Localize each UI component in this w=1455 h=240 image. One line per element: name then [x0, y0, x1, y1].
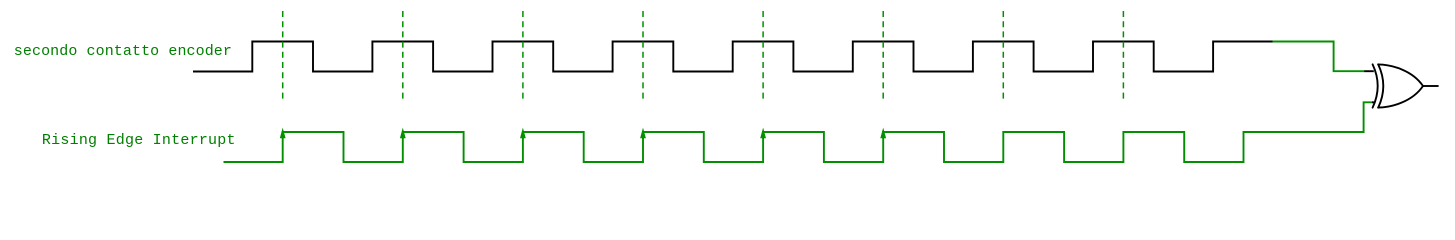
- wire: XOR input A stub (black): [1364, 70, 1374, 72]
- rising-edge arrow 3: [520, 128, 526, 139]
- wire: encoder signal to XOR input A (green): [1273, 42, 1365, 72]
- dashed sampling line 6: [882, 11, 884, 99]
- dashed sampling line 5: [762, 11, 764, 99]
- wire: XOR output: [1423, 85, 1439, 87]
- rising-edge arrow 1: [280, 128, 286, 139]
- dashed sampling line 4: [642, 11, 644, 99]
- rising-edge arrow 4: [640, 128, 646, 139]
- dashed sampling line 7: [1002, 11, 1004, 99]
- dashed sampling line 1: [282, 11, 284, 99]
- wire: XOR input B stub (black): [1372, 101, 1375, 103]
- rising-edge arrow 6: [880, 128, 886, 139]
- rising-edge arrow 5: [760, 128, 766, 139]
- dashed sampling line 2: [402, 11, 404, 99]
- rising-edge arrow 2: [400, 128, 406, 139]
- dashed sampling line 3: [522, 11, 524, 99]
- svg-text:Rising Edge Interrupt: Rising Edge Interrupt: [42, 132, 236, 149]
- svg-text:secondo contatto encoder: secondo contatto encoder: [14, 43, 232, 60]
- waveform: Rising Edge Interrupt (green square wave): [224, 102, 1373, 162]
- waveform: secondo contatto encoder (black square wave): [193, 42, 1273, 72]
- dashed sampling line 8: [1122, 11, 1124, 99]
- XOR gate U1: [1373, 64, 1423, 107]
